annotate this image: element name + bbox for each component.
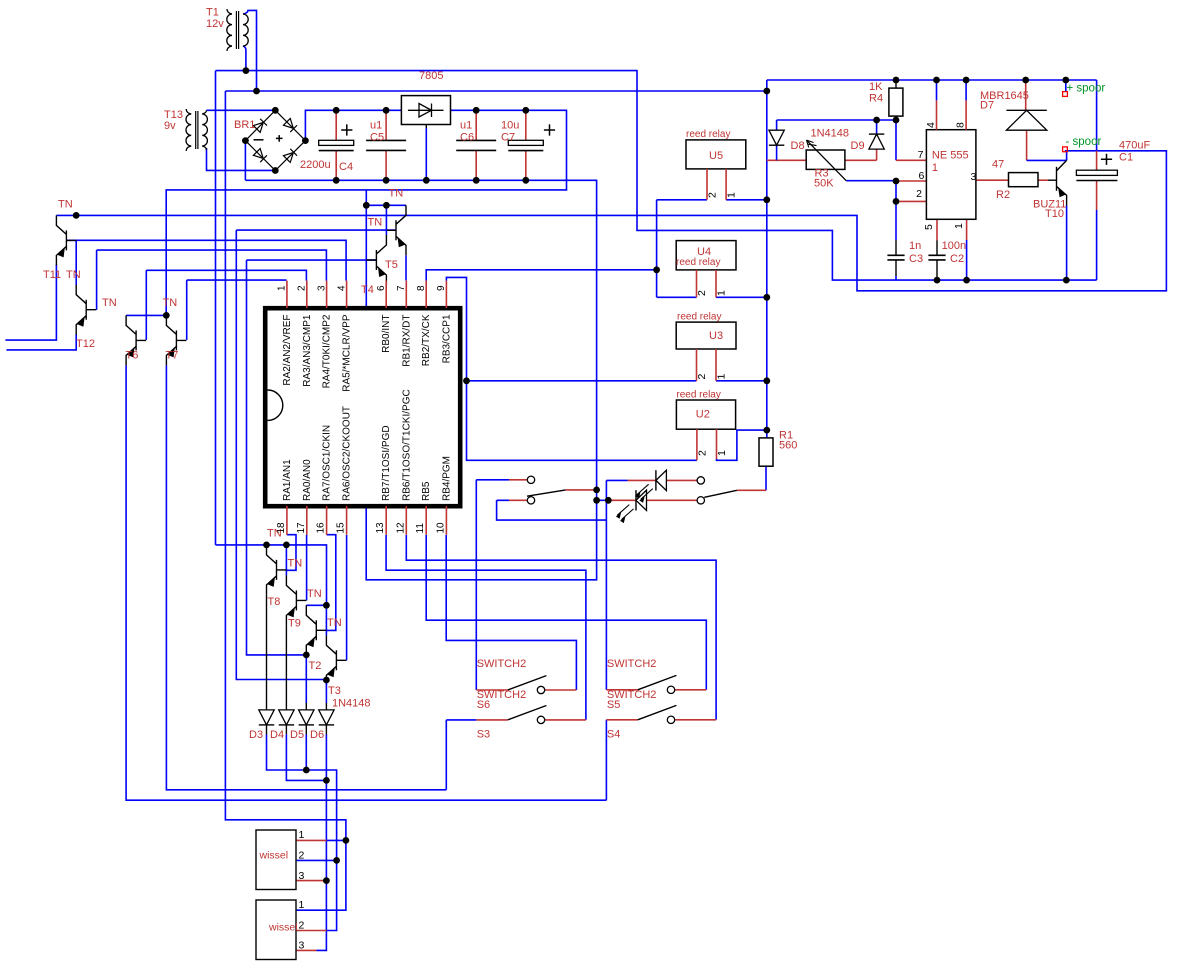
junction LED2 dot bbox=[605, 497, 612, 504]
svg-text:3: 3 bbox=[299, 870, 305, 882]
svg-text:reed relay: reed relay bbox=[676, 257, 720, 268]
svg-text:T3: T3 bbox=[328, 685, 341, 697]
wire red 555 pin6 stub bbox=[896, 180, 926, 182]
svg-text:TN: TN bbox=[327, 617, 342, 629]
junction LED switch common dots on x596 bbox=[593, 487, 600, 494]
svg-text:2: 2 bbox=[696, 290, 708, 296]
wire C1 bottom lead bbox=[1096, 181, 1098, 211]
wire red upper select stub bbox=[509, 479, 527, 481]
svg-text:1N4148: 1N4148 bbox=[332, 698, 371, 710]
svg-text:3: 3 bbox=[299, 940, 305, 952]
wire +9V rail: BR1 plus to 7805 and caps, loop down rail B to T6/T7 collectors bbox=[126, 110, 566, 315]
transformer T13 bbox=[186, 109, 191, 151]
pin 11 lead bbox=[425, 506, 427, 535]
wire S6 left and upper select terminal bbox=[476, 480, 509, 690]
svg-text:U5: U5 bbox=[709, 150, 723, 162]
svg-text:D9: D9 bbox=[851, 140, 865, 152]
switch S6 leads bbox=[476, 689, 576, 691]
svg-text:BR1: BR1 bbox=[234, 119, 255, 131]
LED D1 red leads bbox=[612, 499, 698, 501]
transistor T12 bbox=[76, 285, 96, 335]
svg-text:13: 13 bbox=[375, 522, 386, 534]
svg-text:1: 1 bbox=[277, 285, 288, 291]
svg-text:1: 1 bbox=[299, 829, 305, 841]
svg-text:RB5: RB5 bbox=[421, 481, 432, 501]
transistor T11 bbox=[56, 215, 76, 265]
junction T6/T7 collector dot bbox=[163, 312, 170, 319]
svg-text:RB2/TX/CK: RB2/TX/CK bbox=[421, 314, 432, 366]
transformer T1 bbox=[227, 9, 232, 51]
switch S3 leads bbox=[476, 719, 586, 721]
LED D2 red lead bbox=[628, 479, 698, 481]
svg-text:RB7/T1OSI/PGD: RB7/T1OSI/PGD bbox=[381, 425, 392, 501]
svg-text:1: 1 bbox=[299, 899, 305, 911]
svg-text:6: 6 bbox=[918, 170, 924, 182]
svg-text:9: 9 bbox=[436, 285, 447, 291]
svg-text:TN: TN bbox=[368, 217, 383, 229]
bridge rectifier BR1 bbox=[245, 110, 305, 170]
pin 8 lead bbox=[425, 281, 427, 308]
svg-text:RB0/INT: RB0/INT bbox=[381, 315, 392, 353]
junction +9V rail dots at C4 C5 C6 C7 bbox=[333, 107, 340, 114]
wire 0V rail A: BR1 minus along caps bottoms, down x596 to LED row and pin14 bbox=[245, 141, 596, 580]
wire C3 column from pin2 node bbox=[895, 201, 897, 240]
switch S3 arm and circle bbox=[508, 706, 547, 720]
svg-text:RA0/AN0: RA0/AN0 bbox=[302, 459, 313, 501]
capacitor C1 bbox=[1076, 170, 1117, 175]
junction BR1 corner dots bbox=[272, 107, 279, 114]
svg-text:S6: S6 bbox=[477, 699, 490, 711]
svg-text:C7: C7 bbox=[501, 132, 515, 144]
switch S4 leads bbox=[606, 719, 716, 721]
svg-text:RA2/AN2/VREF: RA2/AN2/VREF bbox=[282, 315, 293, 386]
wire chip pin8 up to U5/U4 pin2 feed bbox=[426, 200, 707, 297]
wire T10 emitter down to ground rail bbox=[1066, 206, 1068, 281]
svg-text:- spoor: - spoor bbox=[1066, 136, 1102, 148]
svg-text:reed relay: reed relay bbox=[677, 312, 721, 323]
svg-text:TN: TN bbox=[66, 269, 81, 281]
diode D8 bbox=[769, 130, 784, 145]
svg-text:TN: TN bbox=[307, 588, 322, 600]
wire U5 pin leads bbox=[707, 169, 726, 200]
junction T8 T9 collector dots bbox=[263, 542, 270, 549]
svg-text:T6: T6 bbox=[126, 350, 139, 362]
wire U4 pin1 to relay bus bbox=[716, 296, 767, 298]
svg-text:T2: T2 bbox=[309, 660, 322, 672]
marker -spoor square bbox=[1063, 147, 1068, 152]
LED arrows bbox=[637, 484, 653, 499]
svg-text:RA5/*MCLR/VPP: RA5/*MCLR/VPP bbox=[342, 314, 353, 392]
wire T12 emitter to left stub bbox=[6, 334, 76, 350]
svg-text:wissel: wissel bbox=[259, 850, 289, 862]
wire D4 bottom jog bbox=[286, 734, 326, 780]
wire T1 bottom lead bbox=[243, 46, 246, 71]
PIC microcontroller U1 bbox=[265, 308, 460, 506]
wire C1 top lead bbox=[1096, 151, 1098, 170]
transistor T5 bbox=[386, 205, 406, 255]
pin 16 lead bbox=[326, 506, 328, 535]
svg-text:wissel: wissel bbox=[268, 922, 298, 934]
switch right pair circles bbox=[697, 477, 704, 484]
capacitor C5 bbox=[385, 110, 387, 180]
switch S5 leads bbox=[606, 689, 706, 691]
wire 555 supply rail and relay bus vertical bbox=[767, 80, 1097, 438]
svg-text:12: 12 bbox=[395, 522, 406, 534]
wire R1 bottom to right switch common bbox=[765, 466, 767, 490]
svg-text:50K: 50K bbox=[814, 177, 834, 189]
label BR1 plus minus bbox=[254, 139, 264, 141]
resistor R4 bbox=[895, 80, 897, 88]
svg-text:3: 3 bbox=[970, 171, 976, 183]
capacitor C6 bbox=[475, 110, 477, 180]
resistor R1 bbox=[759, 438, 773, 466]
svg-text:T5: T5 bbox=[385, 259, 398, 271]
wire T9 collector feed from rail bbox=[285, 545, 287, 576]
wire net T1 secondary B: y91 line to relay bus, down to wissel2 bbox=[225, 91, 766, 910]
wire red 555 pin2 stub bbox=[896, 200, 926, 202]
svg-text:C2: C2 bbox=[950, 253, 964, 265]
junction rail A dots bbox=[333, 177, 340, 184]
junction wissel dots bbox=[343, 837, 350, 844]
svg-text:R4: R4 bbox=[869, 93, 883, 105]
junction 555 ground dots bbox=[934, 277, 941, 284]
wire U4 pin leads bbox=[697, 270, 717, 297]
capacitor C4 bbox=[335, 110, 337, 180]
wire R2 to T10 base bbox=[1038, 179, 1048, 181]
junction D6 T3 emitter dot bbox=[323, 677, 330, 684]
svg-text:7: 7 bbox=[396, 285, 407, 291]
wire AC from T13 to BR1 top and bottom bbox=[207, 110, 276, 170]
svg-text:T12: T12 bbox=[76, 338, 95, 350]
wire D3 D5 node to wissel1 pin2 and wissel2 pin2 bbox=[267, 734, 337, 930]
reed relay U2 bbox=[676, 400, 735, 429]
svg-text:TN: TN bbox=[58, 199, 73, 211]
svg-text:15: 15 bbox=[336, 522, 347, 534]
wire T3 collector feed bbox=[325, 605, 327, 635]
wire chip pin9 to U3 pin2 and U2 pin2 bbox=[446, 277, 697, 460]
svg-text:8: 8 bbox=[955, 122, 967, 128]
transistor T9 bbox=[286, 575, 306, 625]
wire T12 base to chip pin3 bbox=[97, 250, 327, 310]
svg-text:1: 1 bbox=[716, 450, 728, 456]
diode D5 bbox=[305, 703, 307, 710]
transistor T2 bbox=[306, 605, 326, 655]
switch S6 arm and circle bbox=[508, 676, 547, 690]
capacitor C7 bbox=[525, 110, 527, 180]
svg-text:6: 6 bbox=[376, 285, 387, 291]
svg-text:1: 1 bbox=[716, 290, 728, 296]
wire TN rail y215 to minus spoor loop bbox=[56, 151, 1166, 291]
svg-text:TN: TN bbox=[288, 558, 303, 570]
svg-text:RA3/AN3/CMP1: RA3/AN3/CMP1 bbox=[302, 314, 313, 387]
wire U5 pin1 to relay bus bbox=[726, 199, 767, 201]
wire T6 emitter to line L1 y800 to S4 left bbox=[126, 365, 606, 800]
switch S5 arm and circle bbox=[638, 675, 677, 689]
junction pin8 relay dot bbox=[653, 266, 660, 273]
wire wissel1 pin1 blue part bbox=[327, 839, 346, 841]
junction T1B dots bbox=[253, 88, 260, 95]
diode D6 bbox=[325, 703, 327, 710]
pin 1 lead bbox=[286, 281, 288, 308]
svg-text:100n: 100n bbox=[942, 240, 966, 252]
svg-text:10: 10 bbox=[435, 522, 446, 534]
svg-text:9v: 9v bbox=[164, 120, 176, 132]
transistor T8 bbox=[267, 545, 287, 595]
pin 12 lead bbox=[405, 506, 407, 535]
junction D4 D6 dot bbox=[323, 777, 330, 784]
reed relay U3 bbox=[676, 322, 736, 349]
wire red 555 pin7 stub bbox=[896, 159, 926, 161]
wire chip pin13 to S3 right bbox=[386, 535, 586, 720]
wire D6 bottom through wissel1 pin3 to wissel2 pin3 bbox=[317, 734, 327, 950]
transistor T7 bbox=[166, 315, 186, 365]
switch select circles bbox=[527, 476, 534, 483]
junction 555 rail dots bbox=[893, 77, 900, 84]
svg-text:1N4148: 1N4148 bbox=[811, 128, 850, 140]
wire chip pin12 to S4 right bbox=[406, 535, 716, 720]
transistor T4 bbox=[385, 205, 387, 235]
LED D1 symbol bbox=[636, 490, 647, 510]
wire wissel1 pin2 bbox=[296, 859, 337, 861]
wire red wissel2 pin3 stub bbox=[296, 949, 317, 951]
switch select arm left pair bbox=[527, 490, 566, 496]
svg-text:8: 8 bbox=[416, 285, 427, 291]
svg-text:TN: TN bbox=[389, 188, 404, 200]
svg-text:reed relay: reed relay bbox=[676, 390, 720, 401]
svg-text:NE 555: NE 555 bbox=[932, 150, 969, 162]
svg-text:TN: TN bbox=[163, 297, 178, 309]
wire red lower select stub bbox=[509, 499, 527, 501]
svg-text:2: 2 bbox=[297, 285, 308, 291]
transistor T3 bbox=[326, 635, 346, 685]
svg-text:T11: T11 bbox=[43, 269, 61, 281]
svg-text:S4: S4 bbox=[607, 729, 620, 741]
svg-text:+ spoor: + spoor bbox=[1067, 83, 1106, 95]
wire 555 pin3 to R2 bbox=[976, 179, 1009, 181]
svg-text:T9: T9 bbox=[288, 618, 301, 630]
diode D4 bbox=[285, 703, 287, 710]
wire T5 base line from D6 node x236 bbox=[236, 230, 396, 679]
wire U2 pin1 jog to R1 top bbox=[717, 430, 767, 460]
svg-text:SWITCH2: SWITCH2 bbox=[477, 658, 527, 670]
svg-text:17: 17 bbox=[296, 522, 307, 534]
svg-text:2200u: 2200u bbox=[300, 159, 331, 171]
wire 555 pin4 pin8 leads bbox=[936, 80, 938, 100]
svg-text:1K: 1K bbox=[869, 81, 883, 93]
svg-text:12v: 12v bbox=[206, 18, 224, 30]
connector wissel 1 bbox=[256, 830, 296, 890]
connector wissel 2 bbox=[256, 900, 296, 960]
svg-text:T4: T4 bbox=[361, 284, 374, 296]
svg-text:1n: 1n bbox=[909, 240, 921, 252]
svg-text:16: 16 bbox=[316, 522, 327, 534]
wire T7 base to chip pin1 bbox=[187, 280, 287, 340]
transistor T6 bbox=[126, 315, 146, 365]
wire D8 bottom lead bbox=[776, 145, 778, 160]
svg-text:u1: u1 bbox=[370, 120, 382, 132]
LED D2 symbol bbox=[656, 470, 667, 490]
svg-text:D8: D8 bbox=[791, 140, 805, 152]
pin 10 lead bbox=[445, 506, 447, 535]
svg-text:TN: TN bbox=[102, 297, 117, 309]
svg-text:S5: S5 bbox=[607, 699, 620, 711]
wire D5 top lead bbox=[305, 655, 307, 703]
svg-text:T8: T8 bbox=[268, 596, 281, 608]
wire red R3 right lead to D9 bottom bbox=[845, 149, 877, 160]
svg-text:T1: T1 bbox=[206, 7, 219, 19]
wire 555 pin5 to C2 bbox=[936, 219, 938, 240]
reed relay U5 bbox=[686, 140, 746, 169]
svg-text:D3: D3 bbox=[249, 729, 263, 741]
pin 18 lead bbox=[286, 506, 288, 535]
switch S4 arm and circle bbox=[638, 705, 677, 719]
svg-text:D4: D4 bbox=[270, 729, 284, 741]
wire +spoor stub bbox=[1065, 80, 1067, 92]
svg-text:RB3/CCP1: RB3/CCP1 bbox=[441, 314, 452, 363]
svg-text:R2: R2 bbox=[996, 189, 1010, 201]
svg-text:C5: C5 bbox=[370, 132, 384, 144]
wire lower select terminal to S5 left and LED1 left bbox=[497, 480, 628, 689]
wire net T1 secondary A: top line y70 to 555 ground loop bbox=[216, 71, 1097, 281]
svg-text:4: 4 bbox=[925, 122, 937, 128]
svg-text:D6: D6 bbox=[310, 729, 324, 741]
wire red wissel1 pin3 stub bbox=[296, 880, 326, 882]
junction pin9 U3 dot bbox=[463, 377, 470, 384]
svg-text:5: 5 bbox=[923, 224, 935, 230]
wire U2 pin leads bbox=[697, 429, 717, 460]
svg-text:2: 2 bbox=[299, 850, 305, 862]
pin 9 lead bbox=[445, 281, 447, 308]
svg-text:2: 2 bbox=[707, 192, 719, 198]
pin 15 lead bbox=[346, 506, 348, 535]
svg-text:RA1/AN1: RA1/AN1 bbox=[282, 459, 293, 501]
wire T11 emitter to left stub bbox=[5, 265, 56, 341]
junction D3 D5 dot bbox=[303, 767, 310, 774]
wire D5 bottom lead bbox=[305, 734, 307, 770]
svg-text:2: 2 bbox=[696, 374, 708, 380]
svg-text:RB1/RX/DT: RB1/RX/DT bbox=[401, 315, 412, 367]
resistor R2 bbox=[1009, 173, 1039, 187]
wire 555 pin1 down bbox=[966, 219, 968, 240]
svg-text:1: 1 bbox=[726, 192, 738, 198]
wire R3 wiper to 555 pin6 and pin2 bbox=[846, 181, 896, 202]
svg-text:C1: C1 bbox=[1119, 152, 1133, 164]
wire T11 base to chip pin4 bbox=[66, 240, 346, 280]
wire D7 top lead bbox=[1025, 80, 1027, 110]
wire red wissel2 pin2 stub bbox=[296, 930, 327, 932]
svg-text:3: 3 bbox=[316, 285, 327, 291]
svg-text:T7: T7 bbox=[166, 350, 179, 362]
wire red R3 left lead from bus bbox=[767, 159, 806, 161]
svg-text:RB6/T1OSO/T1CKI/PGC: RB6/T1OSO/T1CKI/PGC bbox=[401, 389, 412, 501]
wire chip pin18 jog to T8 base bbox=[287, 535, 296, 571]
wire chip pin15 down to T3 base bbox=[346, 535, 348, 660]
wire D7 bottom to minus spoor node bbox=[1026, 130, 1028, 160]
wire net T1A drop to T8/T9 collector rail and T2 collector bbox=[216, 71, 327, 606]
wire T12 collector feed bbox=[75, 240, 77, 285]
svg-text:reed relay: reed relay bbox=[686, 129, 730, 140]
marker +spoor square bbox=[1063, 92, 1068, 97]
capacitor C3 bbox=[887, 254, 904, 256]
svg-text:u1: u1 bbox=[460, 120, 472, 132]
pin 6 lead bbox=[385, 281, 387, 308]
wire T4 base line from D5 node x246 bbox=[247, 260, 377, 655]
junction relay bus dots bbox=[763, 196, 770, 203]
wire TN stub from rail B to T4/T5 collectors and chip pin5 bbox=[366, 190, 406, 308]
regulator 7805 bbox=[425, 125, 427, 129]
junction D5 T2 emitter dot bbox=[303, 652, 310, 659]
svg-text:18: 18 bbox=[276, 522, 287, 534]
svg-text:C3: C3 bbox=[909, 253, 923, 265]
wire U3 pin1 to relay bus bbox=[716, 380, 767, 382]
svg-text:RB4/PGM: RB4/PGM bbox=[441, 456, 452, 501]
svg-text:U3: U3 bbox=[709, 330, 723, 342]
svg-text:T10: T10 bbox=[1045, 208, 1064, 220]
wire LED2 left segment bbox=[597, 499, 612, 501]
svg-text:47: 47 bbox=[992, 159, 1004, 171]
svg-text:1: 1 bbox=[932, 162, 938, 174]
svg-text:2: 2 bbox=[299, 920, 305, 932]
junction pin7 node dots bbox=[873, 117, 880, 124]
junction 555 pin6 pin2 dots bbox=[893, 178, 900, 185]
wire chip pin11 to S5 right bbox=[426, 535, 706, 690]
svg-text:7805: 7805 bbox=[419, 70, 443, 82]
svg-text:7: 7 bbox=[918, 149, 924, 161]
svg-text:1: 1 bbox=[716, 374, 728, 380]
pin 3 lead bbox=[326, 281, 328, 308]
diode D3 bbox=[266, 703, 268, 710]
pin 4 lead bbox=[346, 281, 348, 308]
wire T1 top lead to y91 bbox=[243, 10, 257, 91]
pin 2 lead bbox=[306, 281, 308, 308]
svg-text:RA7/OSC1/CKIN: RA7/OSC1/CKIN bbox=[322, 425, 333, 501]
svg-text:U2: U2 bbox=[696, 409, 710, 421]
wire U3 pin leads bbox=[697, 349, 717, 381]
wire chip pin16 jog to T2 base bbox=[327, 535, 336, 631]
timer NE555 bbox=[926, 130, 976, 220]
svg-text:11: 11 bbox=[415, 523, 426, 534]
wire T7 emitter to line L2 y790 to S3 left bbox=[166, 365, 446, 789]
svg-text:C6: C6 bbox=[460, 132, 474, 144]
diode D7 bbox=[1006, 110, 1046, 130]
potentiometer R3 bbox=[806, 150, 845, 169]
svg-text:560: 560 bbox=[779, 440, 797, 452]
junction T1A-T1 bottom bbox=[243, 67, 250, 74]
junction T2 collector dot bbox=[323, 602, 330, 609]
wire red wissel1 pin1 stub bbox=[296, 839, 327, 841]
svg-text:2: 2 bbox=[916, 188, 922, 200]
svg-text:RA6/OSC2/CKOOUT: RA6/OSC2/CKOOUT bbox=[342, 406, 353, 501]
pin 13 lead bbox=[385, 506, 387, 535]
wire 555 pin7 node: R4 bottom, D8 top, D9 top bbox=[777, 116, 896, 160]
wire D6 top lead bbox=[325, 680, 327, 703]
switch right arm bbox=[704, 490, 737, 497]
svg-text:S3: S3 bbox=[477, 729, 490, 741]
svg-text:1: 1 bbox=[953, 223, 965, 229]
svg-text:4: 4 bbox=[336, 285, 347, 291]
svg-text:D7: D7 bbox=[980, 100, 994, 112]
capacitor C2 bbox=[928, 254, 945, 256]
pin 7 lead bbox=[405, 281, 407, 308]
svg-text:10u: 10u bbox=[501, 120, 519, 132]
wire T6 base to chip pin2 bbox=[146, 270, 306, 340]
svg-text:SWITCH2: SWITCH2 bbox=[607, 658, 657, 670]
svg-text:C4: C4 bbox=[339, 161, 353, 173]
junction TN rail dot at T11 bbox=[73, 212, 80, 219]
junction TN dots at T4 T5 collectors bbox=[363, 202, 370, 209]
transistor T10 BUZ11 bbox=[1048, 160, 1067, 205]
wire chip pin17 down to T9 base bbox=[306, 535, 308, 601]
